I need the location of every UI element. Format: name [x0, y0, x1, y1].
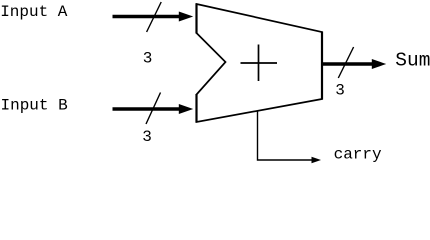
svg-text:3: 3	[143, 50, 153, 68]
svg-text:Sum: Sum	[395, 50, 430, 72]
svg-text:3: 3	[335, 82, 345, 100]
svg-text:carry: carry	[334, 146, 382, 164]
svg-text:3: 3	[142, 128, 152, 146]
svg-text:Input B: Input B	[1, 97, 68, 115]
svg-text:Input A: Input A	[0, 3, 68, 21]
